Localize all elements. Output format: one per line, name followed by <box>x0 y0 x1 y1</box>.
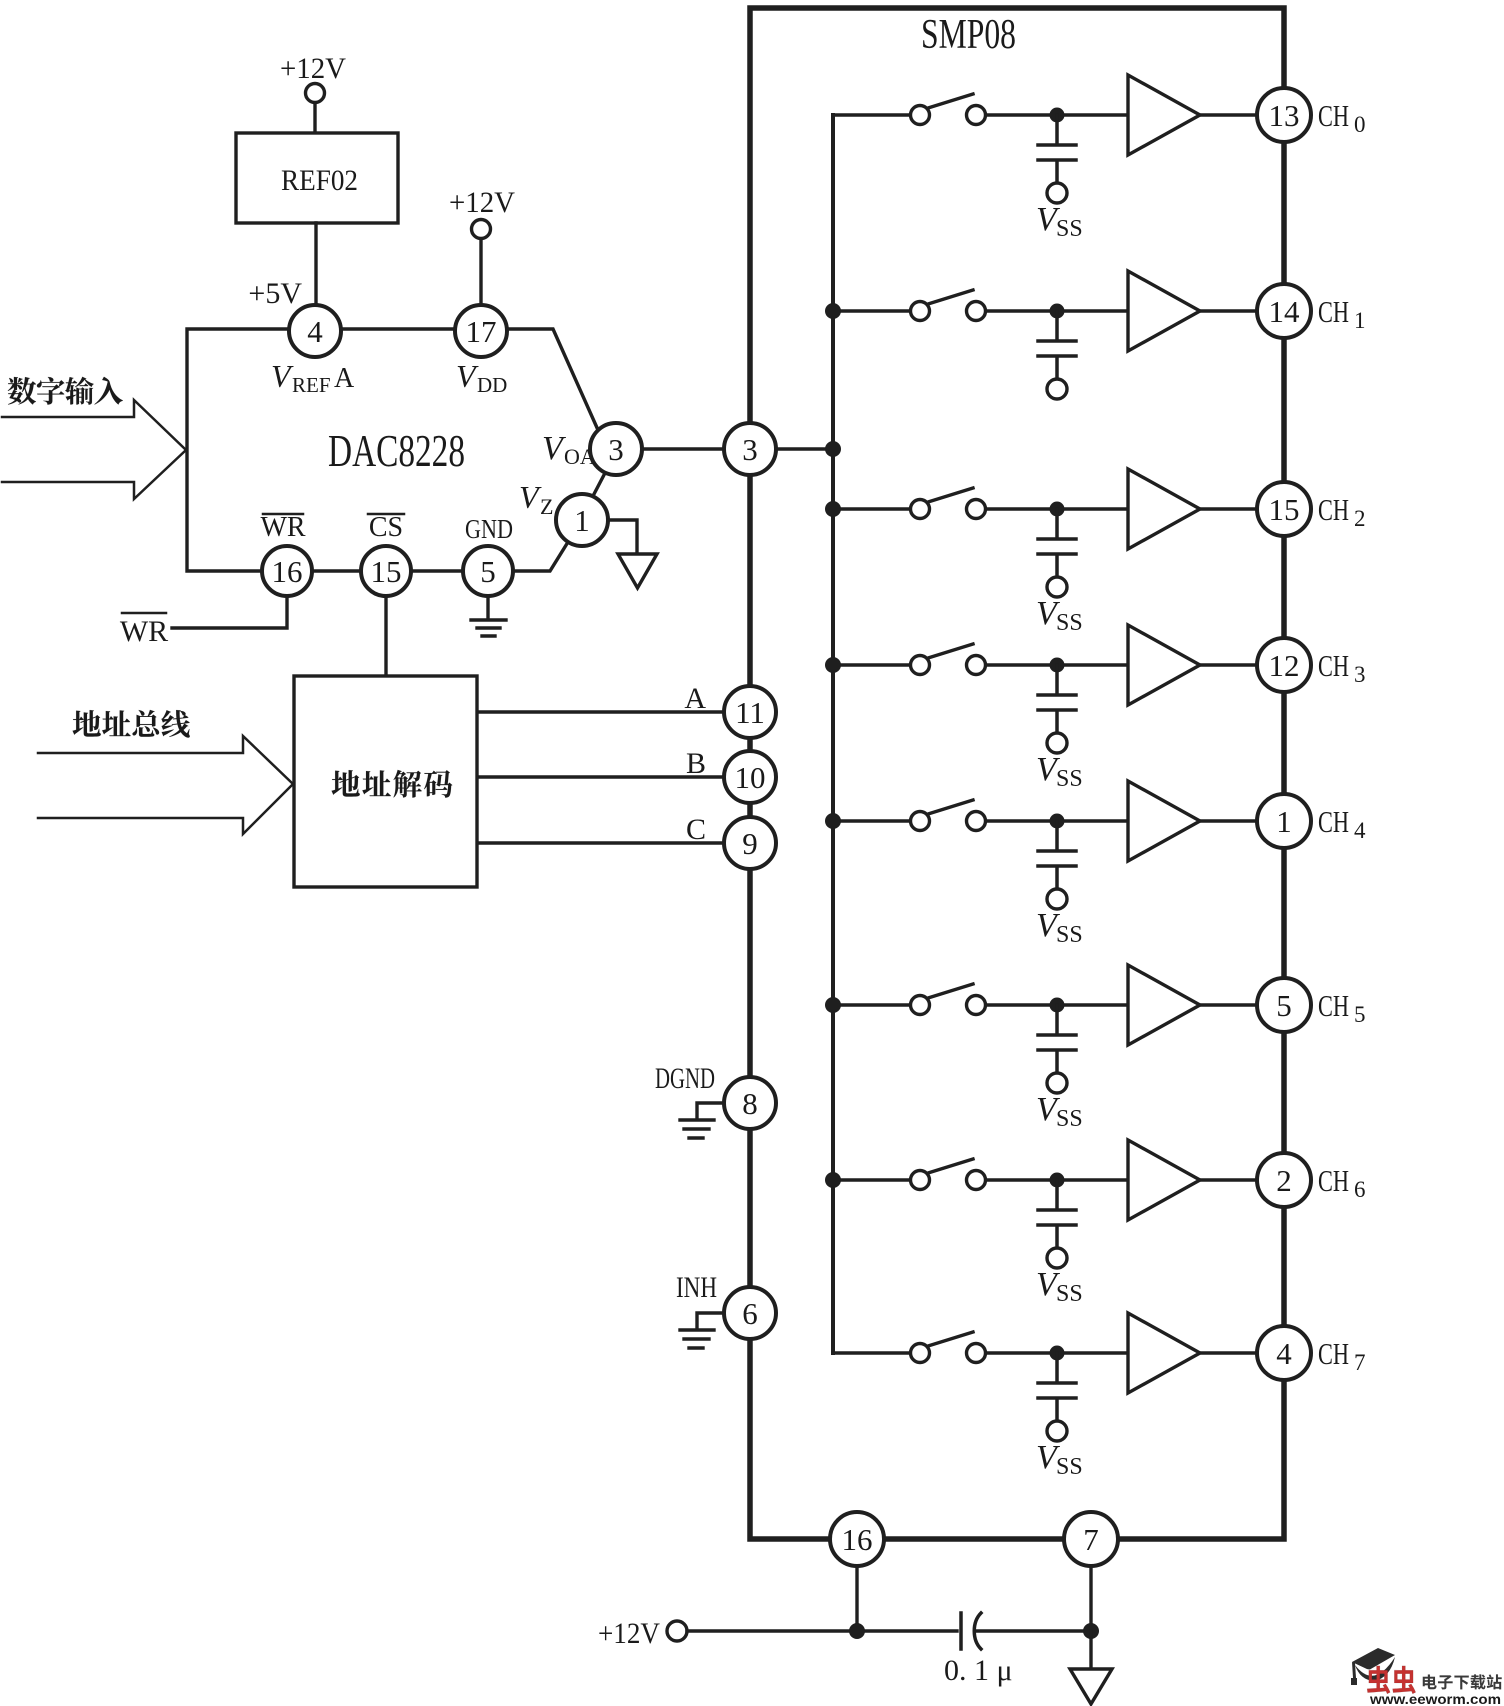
arrow address bus <box>38 736 293 834</box>
svg-text:CH: CH <box>1318 804 1349 839</box>
svg-text:A: A <box>334 363 355 394</box>
svg-text:+12V: +12V <box>449 186 515 219</box>
svg-text:1: 1 <box>1354 308 1366 333</box>
buffer amplifier A0 <box>1128 75 1200 155</box>
svg-text:3: 3 <box>1354 662 1366 687</box>
pin 16 V+ <box>830 1512 884 1566</box>
svg-text:13: 13 <box>1269 98 1300 133</box>
VSS terminal CH3 <box>1047 733 1067 753</box>
pin 4 CH7 output <box>1257 1326 1311 1380</box>
wire switch to buffer CH2 <box>986 507 1128 510</box>
wire +12V to VDD <box>479 239 482 305</box>
VSS terminal CH4 <box>1047 889 1067 909</box>
buffer amplifier A4 <box>1128 781 1200 861</box>
svg-text:REF: REF <box>292 373 331 397</box>
svg-text:15: 15 <box>371 554 402 589</box>
svg-text:SS: SS <box>1056 1106 1083 1132</box>
svg-text:10: 10 <box>735 760 766 795</box>
svg-text:+12V: +12V <box>598 1617 660 1650</box>
junction hold node CH6 <box>1050 1173 1065 1188</box>
junction pin16 rail <box>849 1623 865 1639</box>
junction hold node CH2 <box>1050 502 1065 517</box>
wire switch to buffer CH1 <box>986 309 1128 312</box>
wire switch to buffer CH7 <box>986 1351 1128 1354</box>
pin 7 GND <box>1064 1512 1118 1566</box>
VSS terminal CH6 <box>1047 1248 1067 1268</box>
VSS terminal CH5 <box>1047 1073 1067 1093</box>
buffer amplifier A3 <box>1128 625 1200 705</box>
svg-text:CH: CH <box>1318 1163 1349 1198</box>
wire bus to switch S3 <box>833 663 910 666</box>
wire DAC VOA to SMP08 pin 3 <box>642 447 724 450</box>
svg-text:4: 4 <box>1276 1336 1292 1371</box>
wire WR signal <box>172 596 287 628</box>
junction bus row CH6 <box>825 1172 841 1188</box>
buffer amplifier A7 <box>1128 1313 1200 1393</box>
pin 5 GND <box>463 546 513 596</box>
svg-text:SMP08: SMP08 <box>921 12 1016 58</box>
svg-text:WR: WR <box>260 512 305 543</box>
wire address B <box>477 775 724 778</box>
hold capacitor C2 <box>1038 509 1076 577</box>
pin 10 address B <box>724 751 776 803</box>
svg-text:12: 12 <box>1269 648 1300 683</box>
svg-text:Z: Z <box>540 494 553 519</box>
pin 3 SMP08 input <box>724 423 776 475</box>
svg-text:C: C <box>686 813 706 846</box>
svg-text:5: 5 <box>480 554 496 589</box>
svg-text:CH: CH <box>1318 98 1349 133</box>
hold capacitor C6 <box>1038 1180 1076 1248</box>
VSS terminal CH7 <box>1047 1421 1067 1441</box>
hold capacitor C3 <box>1038 665 1076 733</box>
wire pin7 to ground <box>1089 1566 1092 1631</box>
analog switch S5 <box>911 996 930 1015</box>
wire CS to address decoder <box>384 596 387 676</box>
wire bus to switch S5 <box>833 1003 910 1006</box>
wire pin3 to bus <box>776 447 833 450</box>
VSS terminal CH0 <box>1047 183 1067 203</box>
svg-text:GND: GND <box>465 514 513 544</box>
pin 11 address A <box>724 686 776 738</box>
svg-text:5: 5 <box>1276 988 1292 1023</box>
analog switch S3 <box>911 656 930 675</box>
junction hold node CH4 <box>1050 814 1065 829</box>
pin 1 CH4 output <box>1257 794 1311 848</box>
svg-text:CH: CH <box>1318 492 1349 527</box>
ground symbol VZ <box>618 554 657 588</box>
buffer amplifier A5 <box>1128 965 1200 1045</box>
svg-text:DD: DD <box>477 373 507 397</box>
wire buffer to pin CH2 <box>1200 507 1256 510</box>
pin 5 CH5 output <box>1257 978 1311 1032</box>
svg-text:+5V: +5V <box>248 277 302 310</box>
wire +12V to REF02 <box>313 103 316 133</box>
svg-text:CS: CS <box>369 512 403 543</box>
svg-text:9: 9 <box>742 826 758 861</box>
svg-text:5: 5 <box>1354 1002 1366 1027</box>
wire switch to buffer CH5 <box>986 1003 1128 1006</box>
svg-text:6: 6 <box>742 1296 758 1331</box>
svg-text:SS: SS <box>1056 1454 1083 1480</box>
wire bus to switch S4 <box>833 819 910 822</box>
svg-text:15: 15 <box>1269 492 1300 527</box>
svg-text:3: 3 <box>608 432 624 467</box>
capacitor 0.1u <box>961 1613 981 1649</box>
pin 6 INH <box>724 1287 776 1339</box>
hold capacitor C0 <box>1038 115 1076 183</box>
label digital input <box>8 377 36 405</box>
wire switch to buffer CH4 <box>986 819 1128 822</box>
svg-text:A: A <box>684 682 706 715</box>
wire buffer to pin CH4 <box>1200 819 1256 822</box>
junction pin7 rail <box>1083 1623 1099 1639</box>
wire bus to switch S2 <box>833 507 910 510</box>
wire buffer to pin CH5 <box>1200 1003 1256 1006</box>
pin 8 DGND <box>724 1077 776 1129</box>
pin 14 CH1 output <box>1257 284 1311 338</box>
svg-text:7: 7 <box>1083 1522 1099 1557</box>
pin 1 VZ <box>556 494 608 546</box>
IC REF02 <box>236 133 398 223</box>
analog switch S2 <box>911 500 930 519</box>
svg-text:INH: INH <box>676 1271 717 1304</box>
pin 17 VDD <box>455 305 507 357</box>
svg-text:8: 8 <box>742 1086 758 1121</box>
svg-text:0. 1 μ: 0. 1 μ <box>944 1654 1013 1687</box>
hold capacitor C7 <box>1038 1353 1076 1421</box>
svg-text:CH: CH <box>1318 648 1349 683</box>
svg-text:17: 17 <box>466 314 497 349</box>
watermark site name <box>1423 1674 1437 1689</box>
wire address A <box>477 710 724 713</box>
junction hold node CH3 <box>1050 658 1065 673</box>
analog switch S6 <box>911 1171 930 1190</box>
svg-text:CH: CH <box>1318 988 1349 1023</box>
watermark logo cap <box>1351 1648 1395 1685</box>
svg-text:1: 1 <box>1276 804 1292 839</box>
junction hold node CH7 <box>1050 1346 1065 1361</box>
wire buffer to pin CH7 <box>1200 1351 1256 1354</box>
wire buffer to pin CH1 <box>1200 309 1256 312</box>
svg-text:DAC8228: DAC8228 <box>328 425 465 476</box>
watermark chongchong red <box>1367 1666 1390 1694</box>
wire bus to switch S0 <box>833 113 910 116</box>
junction bus row CH3 <box>825 657 841 673</box>
svg-text:V: V <box>519 479 542 515</box>
buffer amplifier A6 <box>1128 1140 1200 1220</box>
wire VZ to ground <box>608 520 637 554</box>
buffer amplifier A2 <box>1128 469 1200 549</box>
svg-text:3: 3 <box>742 432 758 467</box>
svg-text:www.eeworm.com: www.eeworm.com <box>1369 1691 1501 1706</box>
wire buffer to pin CH3 <box>1200 663 1256 666</box>
junction hold node CH1 <box>1050 304 1065 319</box>
terminal +12V bottom <box>667 1621 687 1641</box>
wire pin16 to +12V rail <box>855 1566 858 1631</box>
analog switch S7 <box>911 1344 930 1363</box>
wire +12V rail <box>687 1629 1091 1632</box>
wire REF02 to VREF <box>314 223 317 305</box>
svg-text:14: 14 <box>1269 294 1301 329</box>
svg-text:11: 11 <box>735 695 765 730</box>
svg-text:4: 4 <box>307 314 323 349</box>
address decoder block <box>294 676 477 887</box>
svg-text:0: 0 <box>1354 112 1366 137</box>
hold capacitor C1 <box>1038 311 1076 379</box>
pin 16 WR <box>262 546 312 596</box>
svg-text:WR: WR <box>120 615 168 648</box>
IC DAC8228 outline <box>187 329 605 571</box>
svg-text:CH: CH <box>1318 1336 1349 1371</box>
buffer amplifier A1 <box>1128 271 1200 351</box>
svg-text:SS: SS <box>1056 216 1083 242</box>
ground DGND <box>680 1103 723 1138</box>
hold capacitor C4 <box>1038 821 1076 889</box>
analog switch S0 <box>911 106 930 125</box>
IC SMP08 outline <box>750 8 1284 1539</box>
ground symbol GND pin5 <box>471 596 506 636</box>
pin 4 VREF A <box>289 305 341 357</box>
VSS terminal CH1 <box>1047 379 1067 399</box>
hold capacitor C5 <box>1038 1005 1076 1073</box>
junction bus row CH1 <box>825 303 841 319</box>
pin 15 CH2 output <box>1257 482 1311 536</box>
VSS terminal CH2 <box>1047 577 1067 597</box>
svg-text:7: 7 <box>1354 1350 1366 1375</box>
arrow digital input <box>2 400 186 499</box>
svg-text:SS: SS <box>1056 922 1083 948</box>
wire switch to buffer CH0 <box>986 113 1128 116</box>
svg-text:+12V: +12V <box>280 52 346 85</box>
analog switch S4 <box>911 812 930 831</box>
wire analog input bus <box>831 115 835 1353</box>
svg-text:SS: SS <box>1056 766 1083 792</box>
junction bus node 3 <box>825 441 841 457</box>
junction bus row CH2 <box>825 501 841 517</box>
pin 9 address C <box>724 817 776 869</box>
ground symbol bottom <box>1070 1631 1112 1704</box>
pin 12 CH3 output <box>1257 638 1311 692</box>
svg-text:SS: SS <box>1056 1281 1083 1307</box>
svg-text:16: 16 <box>272 554 303 589</box>
svg-text:2: 2 <box>1276 1163 1292 1198</box>
junction bus row CH5 <box>825 997 841 1013</box>
svg-text:16: 16 <box>842 1522 873 1557</box>
svg-text:REF02: REF02 <box>281 164 358 197</box>
svg-text:CH: CH <box>1318 294 1349 329</box>
wire address C <box>477 841 724 844</box>
ground INH <box>680 1313 723 1348</box>
svg-text:B: B <box>686 747 706 780</box>
pin 2 CH6 output <box>1257 1153 1311 1207</box>
pin 3 VOA <box>590 423 642 475</box>
wire buffer to pin CH0 <box>1200 113 1256 116</box>
pin 15 CS <box>361 546 411 596</box>
wire buffer to pin CH6 <box>1200 1178 1256 1181</box>
wire bus to switch S7 <box>833 1351 910 1354</box>
svg-text:6: 6 <box>1354 1177 1366 1202</box>
wire switch to buffer CH6 <box>986 1178 1128 1181</box>
pin 13 CH0 output <box>1257 88 1311 142</box>
junction bus row CH4 <box>825 813 841 829</box>
wire bus to switch S6 <box>833 1178 910 1181</box>
analog switch S1 <box>911 302 930 321</box>
wire switch to buffer CH3 <box>986 663 1128 666</box>
svg-text:SS: SS <box>1056 610 1083 636</box>
svg-text:2: 2 <box>1354 506 1366 531</box>
junction hold node CH5 <box>1050 998 1065 1013</box>
svg-text:1: 1 <box>574 503 590 538</box>
svg-text:DGND: DGND <box>655 1062 715 1095</box>
svg-text:V: V <box>456 358 479 394</box>
svg-text:V: V <box>271 358 294 394</box>
svg-text:4: 4 <box>1354 818 1366 843</box>
wire bus to switch S1 <box>833 309 910 312</box>
label address bus <box>73 710 101 737</box>
junction hold node CH0 <box>1050 108 1065 123</box>
